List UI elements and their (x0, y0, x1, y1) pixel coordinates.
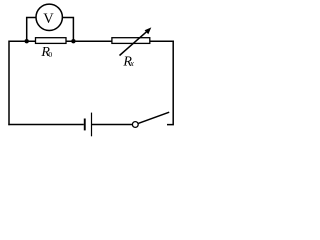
rheostat Rx (box) (112, 38, 150, 44)
wire: bottom-left segment to battery (8, 124, 84, 126)
node: junction dot left (25, 39, 29, 43)
svg-text:V: V (43, 11, 54, 27)
svg-text:x: x (129, 59, 134, 68)
battery: negative plate (short thick) (84, 119, 86, 131)
switch S: blade (open) (138, 112, 169, 123)
label R0 (40, 45, 52, 60)
node: junction dot right (71, 39, 75, 43)
voltmeter V (36, 4, 62, 30)
label Rx (122, 55, 134, 70)
wire: voltmeter branch, left riser (27, 18, 37, 42)
wire: left vertical side (8, 41, 10, 126)
svg-text:0: 0 (48, 50, 52, 59)
wire: right vertical side with contact foot of switch (167, 41, 173, 125)
wire: voltmeter branch, right riser (62, 18, 73, 42)
switch S: pivot circle (132, 122, 138, 128)
rheostat arrow (wiper) (120, 27, 152, 55)
wire: between R0 and Rx (66, 40, 113, 42)
wire: Rx to top-right corner (150, 40, 174, 42)
wire: battery to switch pivot (92, 124, 132, 126)
wire: top-left segment from left corner to R0 (9, 40, 36, 42)
resistor R0 (box) (36, 38, 67, 44)
battery: positive plate (long thin) (91, 113, 92, 137)
